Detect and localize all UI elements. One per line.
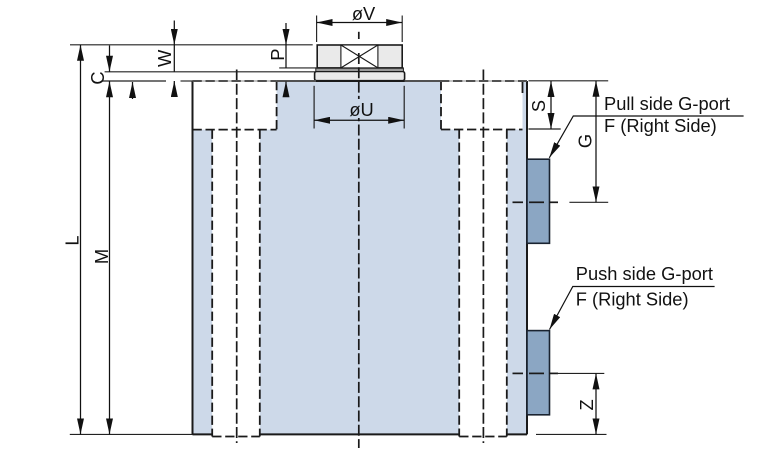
svg-text:F (Right Side): F (Right Side): [576, 288, 689, 309]
svg-text:L: L: [62, 235, 83, 245]
svg-text:Push side G-port: Push side G-port: [576, 263, 713, 284]
svg-text:øV: øV: [352, 3, 376, 24]
svg-text:Pull side G-port: Pull side G-port: [604, 93, 730, 114]
svg-text:C: C: [87, 71, 108, 84]
svg-text:S: S: [528, 100, 549, 112]
svg-text:øU: øU: [349, 99, 373, 120]
svg-text:G: G: [575, 134, 596, 148]
svg-text:M: M: [91, 249, 112, 264]
svg-text:F (Right Side): F (Right Side): [604, 115, 717, 136]
svg-text:Z: Z: [576, 399, 597, 410]
svg-text:W: W: [154, 49, 175, 67]
svg-text:P: P: [267, 48, 288, 60]
